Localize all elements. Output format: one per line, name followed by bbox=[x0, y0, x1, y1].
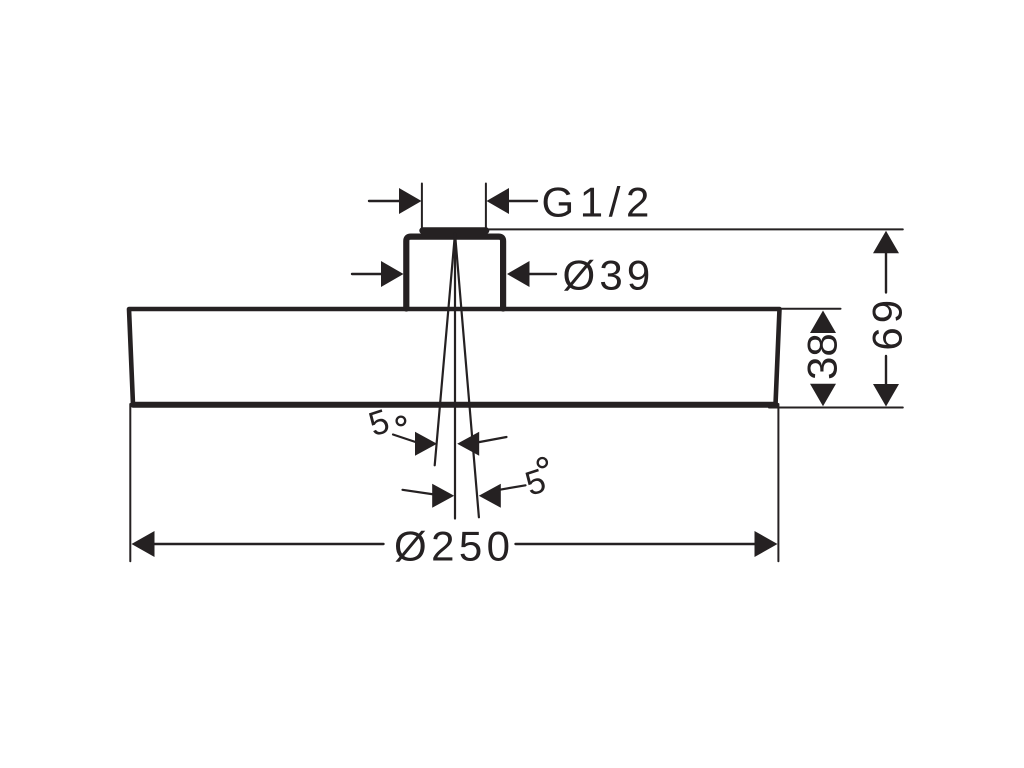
ceiling connector body bbox=[406, 237, 503, 309]
38 dimension top arrowhead bbox=[810, 311, 836, 334]
diameter 250 dimension line right segment bbox=[516, 543, 757, 545]
diameter 250 left arrowhead bbox=[132, 531, 155, 557]
svg-text:Ø250: Ø250 bbox=[394, 523, 514, 570]
69 dimension bottom arrowhead bbox=[873, 384, 899, 407]
svg-text:Ø39: Ø39 bbox=[563, 252, 655, 299]
G1/2 left arrowhead bbox=[399, 188, 422, 214]
5 deg lower-left leader bbox=[403, 490, 435, 495]
69 dimension line segments bbox=[885, 252, 887, 385]
5 deg upper-right arrowhead bbox=[457, 432, 479, 456]
connector top cap (G1/2 thread flange) bbox=[419, 227, 489, 234]
5 deg lower-right leader bbox=[499, 485, 526, 490]
5 deg lower-left arrowhead bbox=[432, 484, 454, 508]
svg-text:38: 38 bbox=[799, 333, 846, 380]
diameter 39 left arrow leader bbox=[352, 273, 382, 275]
spray angle right line (5 deg) bbox=[455, 234, 479, 518]
spray angle centre line bbox=[454, 234, 456, 519]
shower head disc (side view body) bbox=[129, 309, 780, 405]
diameter 39 right arrowhead bbox=[507, 261, 530, 287]
diameter 250 right extension line bbox=[777, 404, 779, 561]
G1/2 right arrowhead bbox=[487, 188, 510, 214]
38 dimension bottom arrowhead bbox=[810, 384, 836, 407]
38/69 dimension bottom extension line bbox=[769, 407, 903, 409]
5 deg lower-right arrowhead bbox=[479, 484, 501, 508]
69 dimension top extension line bbox=[489, 228, 903, 230]
5 deg upper-left leader bbox=[393, 435, 417, 443]
G1/2 right arrow leader bbox=[508, 200, 537, 202]
diameter 250 right arrowhead bbox=[755, 531, 778, 557]
diameter 250 left extension line bbox=[129, 404, 131, 561]
svg-text:69: 69 bbox=[864, 296, 911, 351]
5 deg upper-right leader bbox=[477, 437, 507, 443]
spray angle left line (5 deg) bbox=[435, 234, 455, 466]
diameter 39 right arrow leader bbox=[529, 273, 557, 275]
38 dimension top extension line bbox=[781, 308, 841, 310]
disc bottom face line bbox=[133, 402, 776, 408]
diameter 250 dimension line left segment bbox=[153, 543, 384, 545]
G1/2 left extension line bbox=[421, 184, 423, 229]
G1/2 left arrow leader bbox=[369, 200, 400, 202]
G1/2 right extension line bbox=[485, 184, 487, 229]
svg-text:G1/2: G1/2 bbox=[542, 179, 655, 226]
69 dimension top arrowhead bbox=[873, 231, 899, 254]
diameter 39 left arrowhead bbox=[381, 261, 404, 287]
5 deg upper-left arrowhead bbox=[415, 432, 437, 456]
